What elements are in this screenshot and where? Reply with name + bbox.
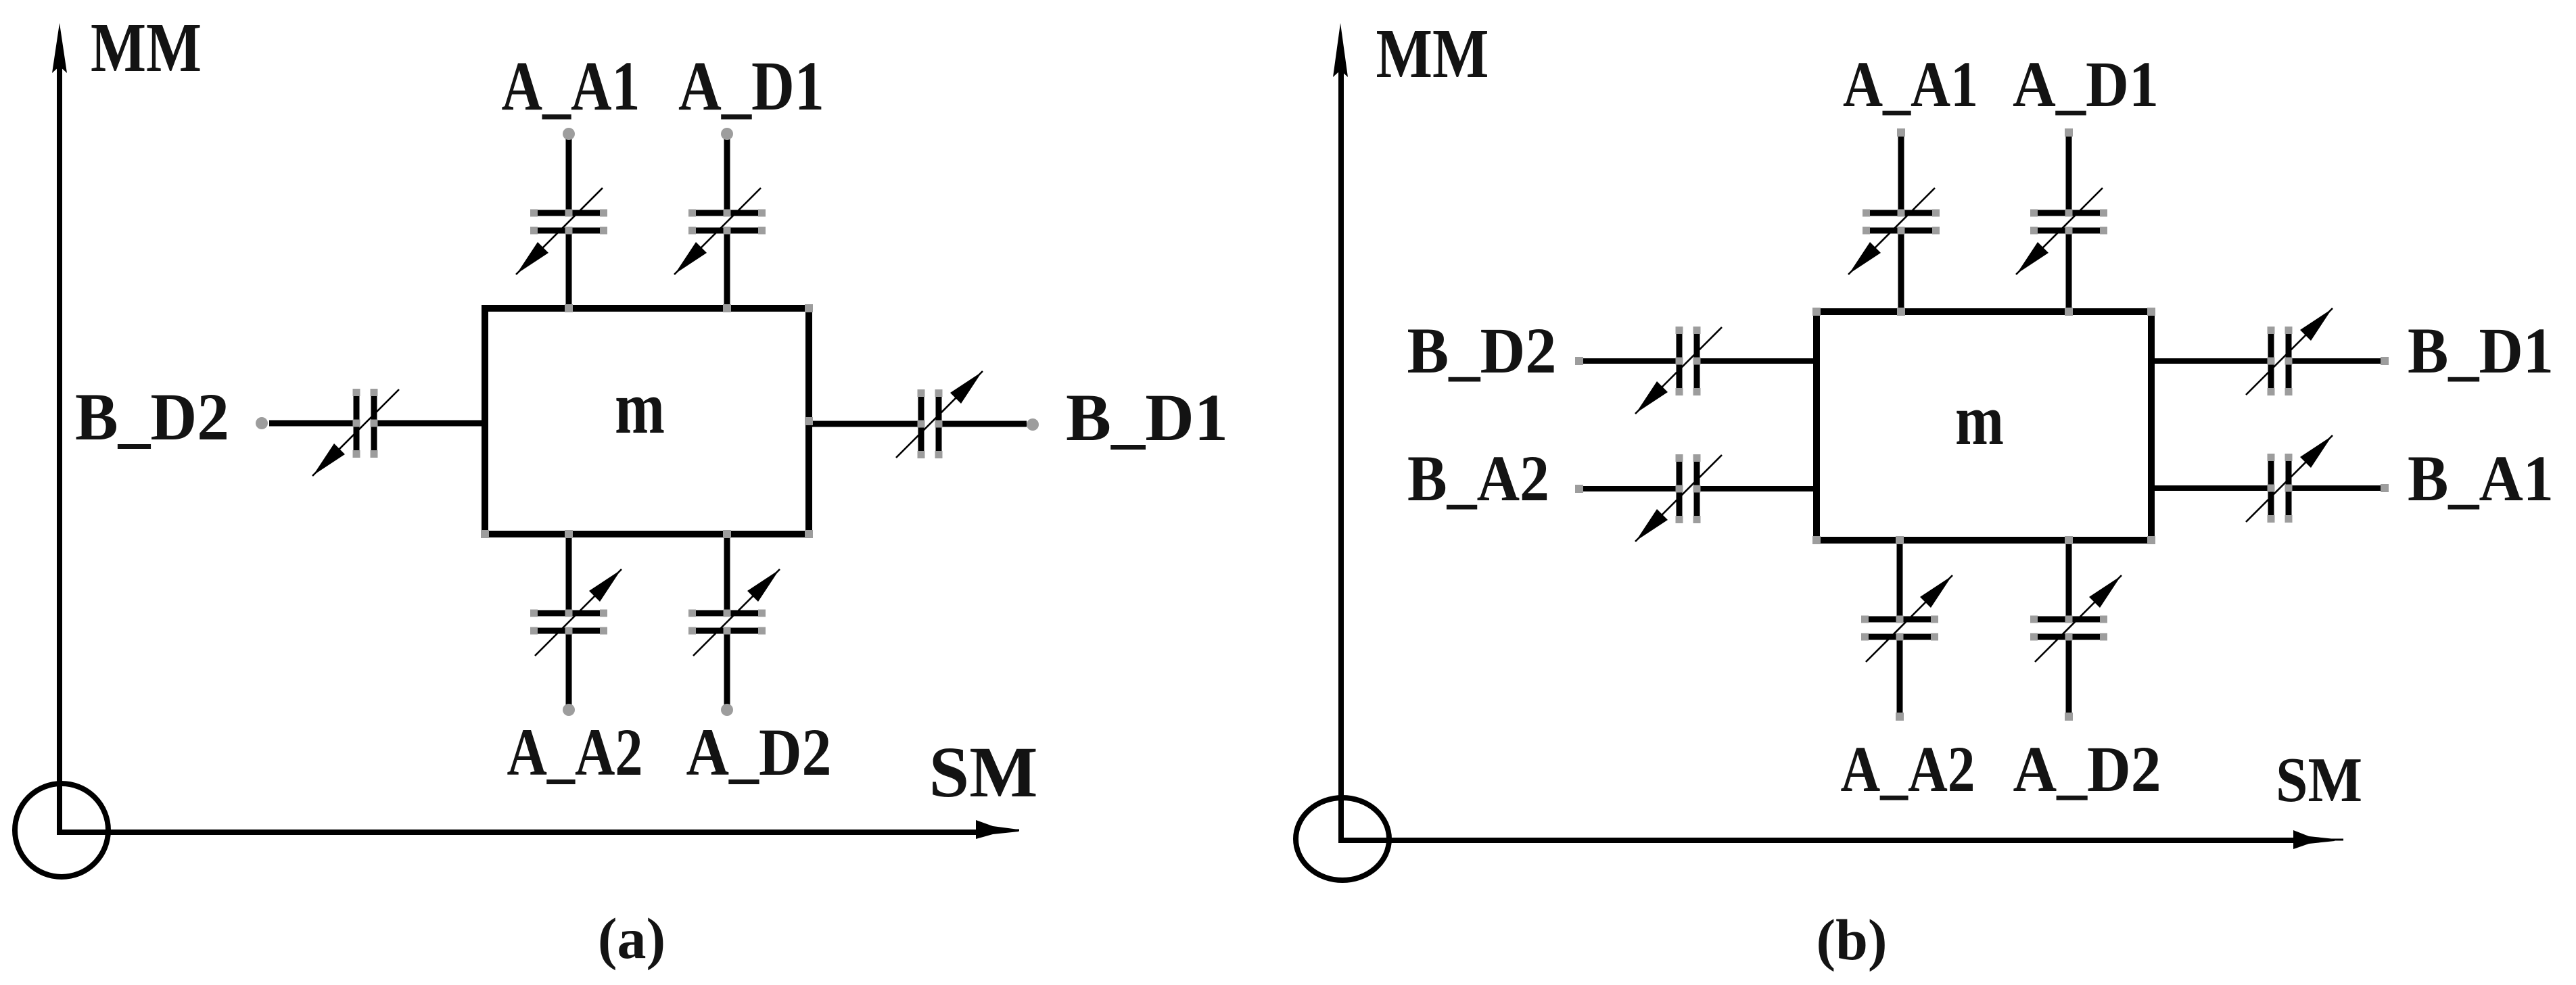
svg-text:(b): (b) bbox=[1816, 907, 1887, 972]
svg-text:B_A1: B_A1 bbox=[2408, 442, 2554, 514]
svg-text:m: m bbox=[615, 366, 665, 450]
svg-text:A_A2: A_A2 bbox=[1841, 733, 1975, 805]
svg-text:A_D1: A_D1 bbox=[2013, 48, 2159, 120]
svg-text:B_A2: B_A2 bbox=[1407, 442, 1549, 514]
svg-text:A_D1: A_D1 bbox=[678, 47, 824, 125]
svg-text:(a): (a) bbox=[598, 906, 665, 971]
svg-text:A_D2: A_D2 bbox=[2013, 733, 2161, 805]
svg-text:SM: SM bbox=[929, 733, 1038, 813]
svg-text:B_D1: B_D1 bbox=[1066, 380, 1228, 455]
svg-text:m: m bbox=[1955, 381, 2004, 460]
svg-text:MM: MM bbox=[1376, 15, 1489, 93]
svg-text:A_A1: A_A1 bbox=[502, 47, 640, 125]
svg-text:B_D1: B_D1 bbox=[2408, 314, 2554, 387]
svg-text:A_A2: A_A2 bbox=[507, 715, 643, 790]
svg-text:A_A1: A_A1 bbox=[1843, 48, 1978, 120]
svg-text:B_D2: B_D2 bbox=[75, 379, 229, 454]
svg-text:MM: MM bbox=[91, 9, 202, 87]
svg-text:A_D2: A_D2 bbox=[686, 715, 832, 790]
svg-text:SM: SM bbox=[2276, 745, 2362, 815]
svg-text:B_D2: B_D2 bbox=[1407, 314, 1557, 387]
